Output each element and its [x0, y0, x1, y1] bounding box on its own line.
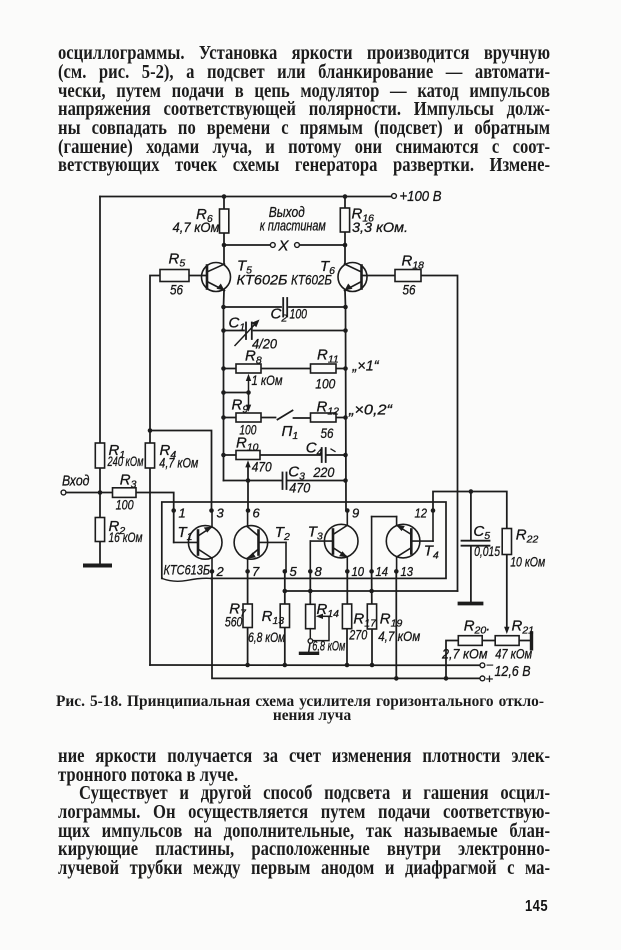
svg-text:10 кОм: 10 кОм — [510, 554, 545, 570]
svg-text:R20.: R20. — [464, 618, 491, 637]
wire: rail2 bottom — [212, 571, 481, 678]
svg-text:470: 470 — [252, 459, 272, 475]
capacitor C3 — [283, 473, 287, 490]
node: rail/R6 junction — [222, 194, 227, 199]
svg-text:100: 100 — [116, 497, 134, 513]
svg-text:КТ602Б: КТ602Б — [291, 272, 332, 288]
wire: pin13 column to rail2 — [395, 571, 397, 678]
resistor R5 — [160, 270, 189, 282]
svg-text:5: 5 — [290, 564, 298, 579]
transistor T2 — [234, 511, 286, 572]
node: rail/R16 junction — [343, 194, 348, 199]
svg-text:R14: R14 — [317, 601, 340, 620]
svg-text:R5: R5 — [169, 251, 186, 270]
node: T5 collector junction — [222, 243, 227, 248]
svg-text:8: 8 — [315, 564, 323, 579]
svg-text:12,6 В: 12,6 В — [495, 663, 531, 680]
pin 2 dot — [210, 569, 215, 574]
wire: C5 stem bottom to ground — [470, 546, 472, 602]
IC box KTS613B — [162, 502, 446, 578]
top paragraph — [58, 44, 550, 175]
box label background — [163, 563, 210, 581]
svg-text:R22: R22 — [516, 527, 539, 546]
wire: R5 left corner down to R4 column — [150, 276, 160, 444]
svg-text:R9: R9 — [232, 397, 249, 416]
resistor R1 — [95, 443, 104, 468]
node: T6 collector junction — [343, 243, 348, 248]
pin 7 dot — [245, 569, 250, 574]
svg-text:2,7 кОм: 2,7 кОм — [441, 646, 488, 662]
bottom paragraphs — [58, 747, 550, 878]
resistor R4 — [145, 443, 154, 468]
wire: XL column T5 emitter bus — [223, 307, 225, 481]
node: XR/C4 — [343, 453, 348, 458]
wire: C1 row — [224, 330, 245, 332]
wire: output X left segment — [224, 244, 270, 246]
svg-text:T1: T1 — [178, 524, 193, 543]
page number — [525, 898, 548, 916]
svg-text:R19: R19 — [380, 611, 403, 630]
svg-text:4,7 кОм: 4,7 кОм — [159, 455, 198, 471]
node: XL/tie — [221, 390, 226, 395]
node: XL/R10 — [221, 453, 226, 458]
svg-text:56: 56 — [170, 282, 183, 298]
transistor T4 — [372, 511, 433, 572]
svg-text:+100 В: +100 В — [400, 188, 442, 205]
pin 9 dot — [345, 508, 350, 513]
svg-text:4,7 кОм: 4,7 кОм — [378, 628, 420, 644]
svg-text:X: X — [278, 238, 290, 255]
svg-text:6: 6 — [253, 506, 261, 521]
R10 wiper arrow (up) — [245, 460, 250, 467]
wire: R5 base wire to T5 — [189, 275, 207, 277]
pin 12 dot — [431, 508, 436, 513]
svg-text:7: 7 — [252, 564, 260, 579]
svg-text:КТ602Б: КТ602Б — [237, 272, 288, 288]
ground bar under R2 — [85, 564, 110, 568]
wire: T5 collector — [223, 245, 225, 264]
node: C3 row / R10 wiper column — [246, 478, 251, 483]
svg-text:6,8 кОм: 6,8 кОм — [312, 639, 345, 654]
svg-text:R21: R21 — [512, 618, 535, 637]
wire: T6 collector — [344, 245, 346, 264]
svg-text:100: 100 — [315, 376, 335, 392]
wire: R22 bottom to R21 wiper — [506, 555, 508, 630]
svg-text:2: 2 — [216, 564, 225, 579]
svg-text:к пластинам: к пластинам — [260, 219, 326, 235]
pin 14 dot — [369, 569, 374, 574]
node: R19/rail1 — [370, 663, 375, 668]
svg-text:13: 13 — [401, 564, 414, 579]
svg-text:T2: T2 — [275, 524, 290, 543]
wire: R9 row left — [224, 417, 237, 419]
svg-text:3: 3 — [217, 506, 225, 521]
pin 13 dot — [394, 569, 399, 574]
wire: R2 to ground — [99, 542, 101, 565]
capacitor C1 (trimmer) — [235, 320, 260, 346]
terminal +100V — [392, 194, 397, 199]
wire: R20 left corner to rail2 — [446, 641, 458, 679]
node: XL/C2 — [221, 305, 226, 310]
potentiometer R8 — [236, 364, 261, 373]
wire: T6 base to R18 — [362, 275, 396, 277]
wire: R12 to XR — [336, 417, 346, 419]
R21 end bar — [530, 633, 533, 649]
potentiometer R10 — [236, 451, 260, 460]
wire: R20-R21 link — [482, 640, 495, 642]
wire: pin7 column through R7 to rail1 — [247, 571, 249, 604]
wire: R4 bottom long column to rail1 — [149, 468, 151, 665]
resistor R13 — [280, 604, 289, 628]
wire: left column from rail to R1 — [99, 197, 101, 444]
wire: pin14 column through R19 to rail1 — [371, 571, 373, 604]
node: XR/C3 — [343, 478, 348, 483]
wire: R10 row — [224, 454, 237, 456]
node: XR/C1 — [343, 328, 348, 333]
svg-text:3,3 кОм.: 3,3 кОм. — [352, 219, 408, 235]
node: XR/R11 — [343, 366, 348, 371]
node: XL/R9 — [221, 415, 226, 420]
wire: R6 stems — [223, 197, 225, 210]
terminal -12.6V — [480, 663, 485, 668]
terminal X right — [295, 243, 300, 248]
svg-text:1 кОм: 1 кОм — [252, 372, 283, 388]
resistor R11 — [311, 364, 337, 373]
wire: node to T1 collector pin 3 — [150, 431, 212, 511]
node: input/R1/R2 junction — [98, 490, 103, 495]
wire: +100V top rail — [100, 196, 392, 198]
svg-text:Вход: Вход — [62, 473, 90, 490]
wire: left column R1 to node — [99, 468, 101, 493]
wire: T6 emitter down to C2 row — [344, 291, 347, 308]
node: XR/R12 — [343, 415, 348, 420]
svg-text:16 кОм: 16 кОм — [109, 529, 143, 545]
node: pin8/bus — [308, 589, 313, 594]
wire: R10 wiper column down to pin 6 — [247, 464, 249, 510]
capacitor C5 — [462, 541, 490, 546]
svg-text:КТС613Б: КТС613Б — [164, 562, 211, 578]
capacitor C4 — [322, 448, 335, 462]
node: pin13/rail2 — [394, 676, 399, 681]
svg-text:T3: T3 — [308, 524, 323, 543]
potentiometer R14 — [306, 604, 315, 628]
resistor R6 — [220, 209, 229, 233]
svg-text:10: 10 — [352, 564, 365, 579]
svg-text:560: 560 — [225, 614, 243, 630]
wire: emitter bus y591 — [285, 590, 458, 592]
wire: pin12 bus y491 — [433, 492, 507, 529]
node: pin14/bus — [369, 589, 374, 594]
pin 5 dot — [283, 569, 288, 574]
R14 bottom stem and terminal circle — [308, 629, 313, 652]
terminal X left — [270, 243, 275, 248]
svg-text:9: 9 — [352, 506, 359, 521]
resistor R17 — [342, 604, 351, 629]
ground bar under C5 — [460, 602, 482, 606]
svg-text:56: 56 — [403, 282, 416, 298]
node: R13/rail1 — [283, 663, 288, 668]
wire: R16 stems — [344, 197, 346, 209]
node: R20/rail2 — [444, 676, 449, 681]
pin 6 dot — [246, 508, 251, 513]
svg-text:1: 1 — [179, 506, 186, 521]
wire: pin8 column to R14 — [309, 571, 311, 604]
potentiometer R20 — [458, 636, 482, 646]
node: tie/wiper — [246, 390, 251, 395]
figure caption — [56, 695, 544, 724]
wire: R18 right corner down long vertical — [421, 276, 458, 592]
transistor T1 — [174, 511, 222, 572]
svg-text:R12: R12 — [317, 399, 340, 418]
terminal + — [480, 676, 485, 681]
wire: R8 wiper tie row — [224, 392, 249, 394]
resistor R16 — [340, 208, 349, 232]
capacitor C2 — [283, 298, 287, 317]
box bottom wavy edge under label — [162, 578, 211, 581]
svg-text:220: 220 — [313, 464, 335, 480]
transistor T3 — [310, 511, 358, 572]
node: pin5/bus — [283, 589, 288, 594]
wire: C5 stem top — [470, 492, 472, 541]
pin 1 dot — [171, 508, 176, 513]
wire: R3 output to pin 1 — [136, 493, 174, 543]
svg-text:„×0,2“: „×0,2“ — [348, 403, 393, 419]
svg-text:14: 14 — [376, 564, 389, 579]
svg-text:100: 100 — [290, 305, 308, 321]
svg-text:R18: R18 — [402, 253, 425, 272]
svg-text:12: 12 — [415, 506, 428, 521]
wire: C2 row — [224, 306, 282, 308]
wire: T5 emitter down to C2 row — [223, 291, 226, 308]
wire: rail1 bottom — [150, 664, 481, 666]
wire: input row — [66, 492, 113, 494]
pin 10 dot — [345, 569, 350, 574]
switch P1 lever — [278, 411, 293, 420]
svg-text:C1: C1 — [229, 315, 246, 334]
node: R4 top junction — [148, 428, 153, 433]
node: XL/C1 — [221, 328, 226, 333]
svg-text:6,8 кОм: 6,8 кОм — [248, 630, 285, 645]
wire: R8 row — [224, 368, 237, 370]
resistor R3 — [113, 488, 137, 498]
ground bar under R14 — [301, 652, 318, 655]
resistor R18 — [395, 270, 421, 282]
resistor R19 — [367, 604, 376, 629]
svg-text:47 кОм: 47 кОм — [495, 646, 532, 662]
wire: pin10 column through R17 to rail1 — [346, 571, 348, 604]
wire: output X right segment — [300, 244, 346, 246]
svg-text:R11: R11 — [317, 347, 339, 366]
wire: R2 stem — [99, 493, 101, 518]
svg-text:0,015: 0,015 — [474, 543, 500, 559]
resistor R12 — [311, 413, 337, 422]
svg-text:C5: C5 — [473, 523, 490, 542]
svg-text:4,7 кОм: 4,7 кОм — [173, 219, 220, 235]
wire: R9 to switch — [261, 417, 276, 419]
node: XR/C2 — [343, 305, 348, 310]
wire: XR column T6 emitter bus — [345, 307, 348, 511]
svg-text:T4: T4 — [424, 543, 439, 562]
resistor R2 — [95, 518, 104, 542]
R8 wiper arrow — [246, 374, 251, 393]
node: R17/rail1 — [345, 663, 350, 668]
pin 8 dot — [308, 569, 313, 574]
terminal input Вход — [61, 490, 66, 495]
svg-text:„×1“: „×1“ — [352, 359, 380, 375]
svg-text:470: 470 — [289, 480, 310, 496]
R14 wiper arrow and tie — [313, 614, 329, 641]
resistor R7 — [243, 604, 252, 628]
wire: pin5 column through R13 to rail1 — [284, 571, 286, 604]
transistor T6 — [338, 263, 367, 292]
wire: switch fixed contact to R12 — [294, 417, 311, 419]
potentiometer R9 — [236, 413, 261, 422]
svg-text:C2: C2 — [271, 306, 288, 325]
svg-text:C4: C4 — [306, 440, 323, 459]
svg-text:+: + — [486, 671, 494, 686]
transistor T5 — [202, 263, 231, 292]
resistor R22 — [502, 529, 511, 555]
R21 wiper arrow (down) — [504, 627, 509, 634]
node: R7/rail1 — [245, 663, 250, 668]
node: C5 tap — [469, 489, 474, 494]
svg-text:270: 270 — [348, 627, 367, 643]
wire: C3 row — [224, 480, 282, 482]
svg-text:56: 56 — [321, 425, 334, 441]
potentiometer R21 — [495, 636, 519, 646]
R9 wiper arrow (down) — [246, 393, 251, 412]
svg-text:240 кОм: 240 кОм — [107, 454, 144, 469]
svg-text:R3: R3 — [120, 472, 137, 491]
wire: R21 right to end bar — [519, 640, 529, 642]
pin 3 dot — [209, 508, 214, 513]
svg-text:П1: П1 — [282, 423, 299, 442]
node: XL/R8 — [221, 366, 226, 371]
